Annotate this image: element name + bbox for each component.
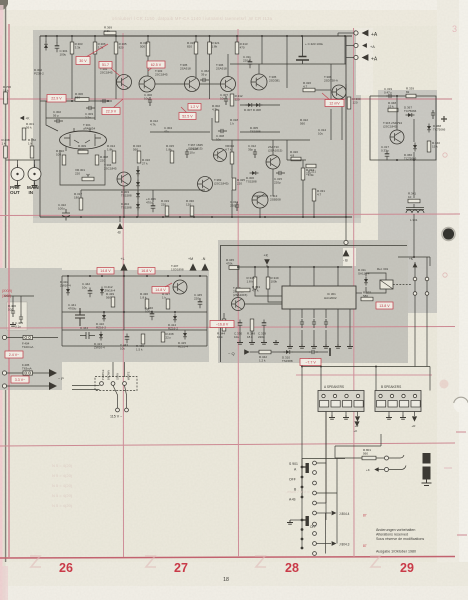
left pink scan edge xyxy=(0,0,3,600)
wire v264 drop xyxy=(263,329,265,340)
ground speaker B 2 xyxy=(400,415,406,419)
wire v303 down xyxy=(302,180,304,217)
connector pin gray xyxy=(111,382,115,386)
wire to term3 xyxy=(346,57,354,59)
resistor R344 xyxy=(222,319,226,331)
wire G4 left rail xyxy=(61,276,63,346)
wire PRE riser xyxy=(17,160,19,168)
switch deck2 pole 3 xyxy=(301,538,304,541)
wire T316 base xyxy=(237,267,239,297)
switch deck2 throw 2 xyxy=(313,522,317,526)
diode D302b xyxy=(136,180,140,189)
left edge band xyxy=(3,0,6,600)
junction bus267 c xyxy=(237,266,239,268)
voltage callout 2.4V xyxy=(5,351,23,358)
wire IC bottom pin 2 xyxy=(301,309,303,318)
arrow terminal +M xyxy=(189,263,196,270)
red grid hline row2 xyxy=(0,214,460,216)
zener D368 xyxy=(427,124,431,133)
junction bottom rail 1 xyxy=(80,216,82,218)
switch S901 wiper 2 xyxy=(306,516,309,526)
wire G3 IC left2 xyxy=(268,289,282,302)
capacitor C303 xyxy=(86,106,95,110)
arrow ~Q xyxy=(244,349,250,355)
wire G4 mid bus xyxy=(62,311,207,313)
capacitor C443 xyxy=(125,334,130,344)
connector pin white xyxy=(123,382,127,386)
ground PRE OUT xyxy=(15,183,21,187)
resistor R436 xyxy=(145,299,149,309)
junction G4 mid 3 xyxy=(123,311,125,313)
diode D415 xyxy=(183,331,187,340)
capacitor C445 xyxy=(198,299,203,309)
gray panel middle left rectifier xyxy=(60,270,209,362)
capacitor C301 xyxy=(55,43,68,57)
wire R801 out xyxy=(376,457,384,459)
wire G2 drop xyxy=(413,160,415,198)
transistor T313 xyxy=(252,192,268,208)
voltage callout -16.8V xyxy=(210,321,234,328)
wire R311 stub xyxy=(147,36,149,42)
resistor R348 xyxy=(388,108,398,112)
resistor R312 xyxy=(230,94,243,106)
wire D411 stub xyxy=(67,276,69,286)
wire R313 stub xyxy=(236,36,238,42)
trimmer VR301 arrow xyxy=(87,174,90,177)
faint watermark zigzag 3 xyxy=(255,556,266,567)
wire G3 border box xyxy=(221,246,408,363)
resistor R437 xyxy=(166,299,170,309)
wire +L stub xyxy=(123,270,125,276)
capacitor C320 xyxy=(238,320,243,330)
right page margin xyxy=(437,0,468,600)
resistor R326 xyxy=(303,88,315,92)
wire T306b up xyxy=(258,64,260,74)
red grid hline row3 xyxy=(0,327,455,329)
wire v224 xyxy=(223,313,225,319)
wire R326 link xyxy=(315,89,331,91)
ground IC pin f xyxy=(347,344,353,348)
dashed link relay to contacts xyxy=(393,284,412,286)
diode D307 xyxy=(246,103,255,107)
resistor R306 xyxy=(93,42,106,54)
wire v124 G4 xyxy=(123,276,125,330)
wire v287 top xyxy=(286,36,288,54)
junction bottom rail 7 xyxy=(211,216,213,218)
diode D303 xyxy=(136,191,140,200)
resistor R439 xyxy=(111,297,115,307)
wire to term2 xyxy=(346,45,354,47)
wire diode row xyxy=(240,104,280,106)
junction G4 top 2 xyxy=(89,275,91,277)
wire bottom rail G1 xyxy=(40,216,352,218)
wire relay bottom xyxy=(366,287,386,293)
wire v138 diodes xyxy=(137,166,139,217)
wire v345 top xyxy=(344,36,346,64)
wire relay to feed a xyxy=(414,330,416,367)
wire T304 down xyxy=(123,186,125,217)
faint showthrough circle a xyxy=(443,153,447,157)
wire D302 top xyxy=(45,36,47,42)
transistor T307 xyxy=(332,85,346,99)
ground IC pin d xyxy=(323,344,329,348)
speaker B lug 3 xyxy=(400,401,409,408)
capacitor C305 xyxy=(151,203,156,213)
wire v232 xyxy=(231,140,233,152)
wire G4 right rail xyxy=(206,276,208,346)
transistor T315 xyxy=(390,130,404,144)
wire G5 v21 xyxy=(20,296,22,314)
junction IC top pin 2 xyxy=(313,266,315,268)
red grid hline row4 short xyxy=(296,374,432,376)
resistor R339 xyxy=(406,94,416,98)
wire v212 mid2 xyxy=(211,118,213,140)
voltage callout 52.5V xyxy=(179,113,196,120)
transistor T316 xyxy=(232,298,245,311)
ground C405 xyxy=(10,322,16,326)
wire G4 to mains a xyxy=(112,362,114,377)
capacitor C319 xyxy=(386,94,395,98)
wire v342 T307 xyxy=(341,98,343,140)
junction top bus 7 xyxy=(195,35,197,37)
svg-text:29: 29 xyxy=(400,561,414,575)
transistor T407 xyxy=(173,280,187,294)
capacitor C316 xyxy=(309,350,318,354)
wire mid bus y57 xyxy=(230,63,346,65)
junction G4 mid 5 xyxy=(174,311,176,313)
wire to +A term1 xyxy=(338,32,354,34)
voltage callout -7.7V xyxy=(300,359,321,366)
headphone jack body xyxy=(423,453,431,464)
speaker B screw 2 xyxy=(390,394,393,397)
speaker A lug 3 xyxy=(343,401,352,408)
wire IC top pin 1 xyxy=(289,267,291,286)
switch S901 throw 3 xyxy=(313,481,317,485)
red faint tick right margin 3 xyxy=(444,467,452,469)
arrow -B right xyxy=(343,250,350,257)
wire v240 drop xyxy=(239,329,241,340)
diode D366 xyxy=(413,143,417,152)
junction top bus 13 xyxy=(344,35,346,37)
switch S901 throw 5 xyxy=(313,501,317,505)
resistor R311 xyxy=(146,42,150,56)
wire row140 xyxy=(212,139,310,141)
wire IC bottom pin 6 xyxy=(349,309,351,318)
junction top bus 8 xyxy=(209,35,211,37)
red pointer 52.5V xyxy=(181,107,187,113)
gray panel main amplifier block xyxy=(33,30,361,222)
diode D304 xyxy=(136,202,140,211)
wire G4 top bus xyxy=(62,275,207,277)
wire IC top pin 2 xyxy=(313,267,315,286)
red grid hline row5 xyxy=(0,443,455,446)
bottom page edge xyxy=(0,586,468,600)
wire v232b xyxy=(231,164,233,178)
red grid hline footer xyxy=(0,557,455,559)
capacitor C441 large xyxy=(75,308,85,326)
diode D306 xyxy=(250,171,259,175)
resistor R435 xyxy=(141,334,145,344)
svg-text:28: 28 xyxy=(285,561,299,575)
resistor R324v xyxy=(301,168,305,180)
wire contact a xyxy=(414,262,416,330)
top margin strip xyxy=(0,0,468,10)
svg-text:Änderungen vorbehalten: Änderungen vorbehalten xyxy=(376,528,415,532)
svg-text:26: 26 xyxy=(59,561,73,575)
wire x381 stub xyxy=(380,434,382,446)
wire G2 outer loop xyxy=(370,96,436,160)
junction IC top pin 1 xyxy=(289,266,291,268)
arrow contact a xyxy=(413,263,418,268)
resistor R317 xyxy=(79,198,83,210)
wire jack row1 xyxy=(335,457,362,459)
wire G5 v13 xyxy=(12,296,14,308)
junction G2 d xyxy=(413,256,415,258)
gray panel left column xyxy=(0,268,62,390)
wire row160 xyxy=(287,159,306,161)
wire v209 mid xyxy=(209,54,211,99)
diode D311 xyxy=(364,277,368,286)
switch S901 pole 1 xyxy=(301,466,304,469)
resistor R706 xyxy=(4,92,8,104)
resistor R348b xyxy=(250,319,254,331)
hole punch dark spot xyxy=(443,228,454,239)
fuse F405 xyxy=(23,371,33,375)
wire G4 to mains b xyxy=(124,362,126,377)
switch S901 pole 4 xyxy=(301,496,304,499)
wire R305 stub xyxy=(115,36,117,42)
transistor T305 xyxy=(185,77,200,92)
wire R342 to D310 xyxy=(271,351,285,353)
switch deck2 throw 3 xyxy=(313,532,317,536)
wire C301 top xyxy=(56,36,58,43)
speaker B lug 4 xyxy=(411,401,420,408)
speaker A screw 4 xyxy=(356,394,359,397)
wire ic pin f drop xyxy=(289,318,291,344)
junction G4 top 3 xyxy=(101,275,103,277)
wire input link xyxy=(6,159,40,161)
svg-text:Sous réserve de modifications: Sous réserve de modifications xyxy=(376,537,424,541)
wire T313 down xyxy=(259,208,261,217)
wire row132b xyxy=(240,131,280,133)
wire MAIN riser xyxy=(34,160,36,168)
wire row190 xyxy=(81,189,138,191)
wire R319 stub xyxy=(195,36,197,42)
wire v95 mid xyxy=(94,54,96,99)
voltage callout 1.2V xyxy=(188,104,201,111)
diode D308 xyxy=(254,103,263,107)
wire speaker B out xyxy=(414,412,416,417)
wire v262 mid xyxy=(261,54,263,64)
wire v346 term xyxy=(345,84,347,99)
diode D410 xyxy=(102,313,106,322)
red tick right margin 2 xyxy=(457,534,467,536)
wire relay loop xyxy=(366,273,386,280)
white inset terminal area top right xyxy=(356,28,373,95)
junction bottom rail 3 xyxy=(136,216,138,218)
capacitor C303b xyxy=(100,99,109,103)
capacitor C313 xyxy=(235,202,239,211)
junction G4 mid 2 xyxy=(103,311,105,313)
left dark scan line xyxy=(5,0,7,562)
wire R349 stub xyxy=(267,267,269,277)
arrow -B left xyxy=(117,223,123,229)
junction bottom rail 8 xyxy=(231,216,233,218)
capacitor C302 xyxy=(54,119,63,123)
junction top bus 5 xyxy=(115,35,117,37)
speaker B lug 1 xyxy=(377,401,386,408)
wire ic pin g drop xyxy=(301,330,303,344)
faint watermark zigzag 2 xyxy=(145,556,156,567)
wire G4 low bus xyxy=(62,329,207,331)
junction bus267 a xyxy=(254,266,256,268)
wire IC top pin 3 xyxy=(337,267,339,286)
fuse F404 xyxy=(23,335,33,339)
wire speaker B gnd stub 1 xyxy=(388,412,390,416)
resistor R346 xyxy=(253,277,257,289)
speaker A screw 1 xyxy=(322,394,325,397)
speaker strip A box xyxy=(318,391,364,412)
junction top bus 10 xyxy=(261,35,263,37)
resistor R301 xyxy=(22,128,26,140)
wire ic pin k drop xyxy=(349,318,351,344)
capacitor C442 xyxy=(88,288,93,298)
wire T316 collector xyxy=(244,303,282,305)
junction bottom rail 12 xyxy=(313,216,315,218)
resistor R320 xyxy=(291,157,301,161)
wire v72 mid xyxy=(71,54,73,99)
contact circle a1 xyxy=(413,277,417,281)
wire D310 to C316 xyxy=(292,351,310,353)
junction x302 xyxy=(301,366,303,368)
terminal jack row2 xyxy=(385,468,389,472)
wire IC bottom pin 3 xyxy=(313,309,315,318)
junction bottom rail 6 xyxy=(193,216,195,218)
inductor L301 xyxy=(406,208,424,214)
wire C316 on xyxy=(316,351,328,353)
wire v196 mid xyxy=(195,54,197,77)
speaker B screw 1 xyxy=(379,394,382,397)
ground IC pin e xyxy=(335,344,341,348)
resistor R342 xyxy=(259,350,271,354)
resistor R352 xyxy=(30,146,34,158)
arrow +A top xyxy=(362,30,369,37)
resistor R319 xyxy=(194,42,198,54)
trimmer VR302 xyxy=(230,152,234,164)
junction G4 top 7 xyxy=(179,275,181,277)
wire F404 out xyxy=(33,337,59,339)
capacitor C319b xyxy=(262,320,267,330)
switch deck2 throw 4 xyxy=(313,542,317,546)
capacitor C406 xyxy=(11,308,15,317)
ground speaker A 2 xyxy=(343,415,349,419)
junction bottom rail 10 xyxy=(264,216,266,218)
arrow +K left margin xyxy=(20,116,24,120)
resistor R314 xyxy=(112,151,116,163)
terminal -B right xyxy=(344,240,348,244)
junction bottom rail 11 xyxy=(302,216,304,218)
junction G4 top 1 xyxy=(67,275,69,277)
wire v116 mid xyxy=(115,54,117,99)
ground IC pin b xyxy=(299,344,305,348)
terminal -A mid xyxy=(354,43,358,47)
red grid vline col 26-27 xyxy=(122,33,125,557)
junction G4 top 5 xyxy=(146,275,148,277)
wire G3 bus267 xyxy=(230,266,352,268)
resistor R310 xyxy=(62,155,66,165)
diode D301 xyxy=(136,168,140,177)
wire deck2 throw4 xyxy=(317,543,332,545)
junction bottom rail 9 xyxy=(259,216,261,218)
speaker B lug 2 xyxy=(388,401,397,408)
wire F404 lead xyxy=(7,337,24,339)
wire hook row2 xyxy=(389,466,406,470)
terminal mains 1 xyxy=(116,408,120,412)
wire F405 lead xyxy=(7,372,24,374)
resistor R340 xyxy=(427,141,431,152)
junction G4 top 6 xyxy=(167,275,169,277)
junction bottom rail 5 xyxy=(179,216,181,218)
wire IC bottom pin 5 xyxy=(337,309,339,318)
wire term feed xyxy=(337,33,339,36)
resistor R302 xyxy=(215,110,219,122)
zener D302 xyxy=(44,42,48,51)
svg-text:27: 27 xyxy=(174,561,188,575)
white inset box left column xyxy=(7,302,27,330)
wire v153 xyxy=(152,190,154,202)
wire v314 xyxy=(313,201,315,217)
svg-text:Alterations reserved: Alterations reserved xyxy=(376,533,408,537)
terminal +A bottom xyxy=(354,55,358,59)
resistor R345 xyxy=(229,266,239,270)
red grid vline col left xyxy=(8,24,10,557)
capacitor C305b xyxy=(224,96,228,105)
wire v95 lower xyxy=(94,99,96,120)
wire x337 lower xyxy=(336,493,338,544)
switch S901 pole 3 xyxy=(301,486,304,489)
junction bottom rail 2 xyxy=(123,216,125,218)
switch S901 throw 4 xyxy=(313,491,317,495)
terminal jack row1 xyxy=(385,456,389,460)
wire speaker A out xyxy=(357,412,359,417)
arrow jack row2 xyxy=(374,467,378,471)
wire v262 top xyxy=(261,36,263,54)
ground row mid b xyxy=(249,340,255,344)
capacitor C322 xyxy=(62,209,70,221)
speaker B screw 4 xyxy=(413,394,416,397)
resistor R321b xyxy=(208,42,212,54)
wire G2 to contacts xyxy=(429,257,431,266)
capacitor C315 xyxy=(276,171,285,175)
wire row190b xyxy=(138,189,205,191)
wire throw4 link xyxy=(317,492,338,494)
ground IC pin a xyxy=(287,344,293,348)
voltage callout 62.5V xyxy=(147,61,165,68)
transistor T310 xyxy=(198,177,213,192)
junction bus267 b xyxy=(267,266,269,268)
voltage callout 16.8V xyxy=(138,268,155,275)
wire contact b xyxy=(426,257,428,330)
wire G4 bottom bus xyxy=(62,345,207,347)
wire speaker A gnd stub 1 xyxy=(331,412,333,416)
resistor R305 xyxy=(114,42,127,54)
wire v287b xyxy=(286,140,288,160)
resistor R321 xyxy=(306,164,316,168)
op-amp dual FET T301 oval xyxy=(60,131,107,149)
red tick right margin 1 xyxy=(456,431,466,433)
resistor R309 xyxy=(78,150,88,154)
resistor R315 xyxy=(170,151,174,163)
